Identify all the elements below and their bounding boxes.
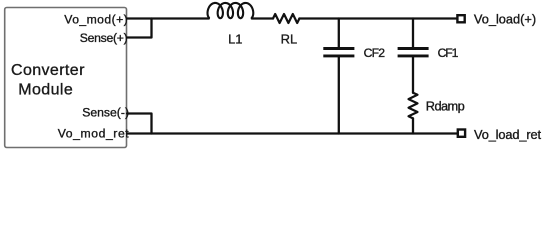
wire resistor RL to Vo_load(+) terminal (299, 17, 457, 19)
svg-text:Sense(-): Sense(-) (82, 105, 129, 119)
capacitor CF2 top plate (323, 47, 354, 50)
wire Sense(-) stub (127, 114, 152, 134)
svg-text:Vo_mod_ret: Vo_mod_ret (58, 126, 130, 140)
resistor Rdamp (409, 93, 418, 119)
svg-text:L1: L1 (228, 31, 242, 46)
wire CF2 bottom stem (338, 57, 340, 133)
svg-text:Vo_load_ret: Vo_load_ret (474, 127, 541, 142)
wire CF2 top stem (338, 19, 340, 48)
terminal square Vo_load(+) (457, 15, 464, 22)
converter module box (5, 8, 127, 148)
capacitor CF1 bottom plate (398, 54, 429, 57)
wire Rdamp to bottom rail (412, 118, 414, 133)
wire top rail box to inductor (127, 17, 209, 19)
capacitor CF1 top plate (398, 47, 429, 50)
svg-text:Converter: Converter (11, 62, 85, 79)
inductor L1 (208, 3, 254, 18)
svg-text:Module: Module (18, 82, 73, 99)
wire CF1 to Rdamp (412, 57, 414, 92)
wire Sense(+) stub (127, 19, 152, 38)
svg-text:CF2: CF2 (364, 46, 386, 60)
svg-text:Vo_mod(+): Vo_mod(+) (64, 12, 127, 26)
svg-text:Rdamp: Rdamp (426, 99, 465, 114)
svg-text:Sense(+): Sense(+) (80, 31, 128, 45)
svg-text:CF1: CF1 (438, 46, 459, 60)
wire bottom rail (127, 132, 457, 134)
wire CF1 top stem (412, 19, 414, 48)
svg-text:Vo_load(+): Vo_load(+) (474, 12, 536, 27)
capacitor CF2 bottom plate (323, 54, 354, 57)
resistor RL (273, 14, 299, 23)
svg-text:RL: RL (281, 31, 298, 46)
terminal square Vo_load_ret (458, 130, 465, 137)
wire inductor to resistor (252, 17, 273, 19)
